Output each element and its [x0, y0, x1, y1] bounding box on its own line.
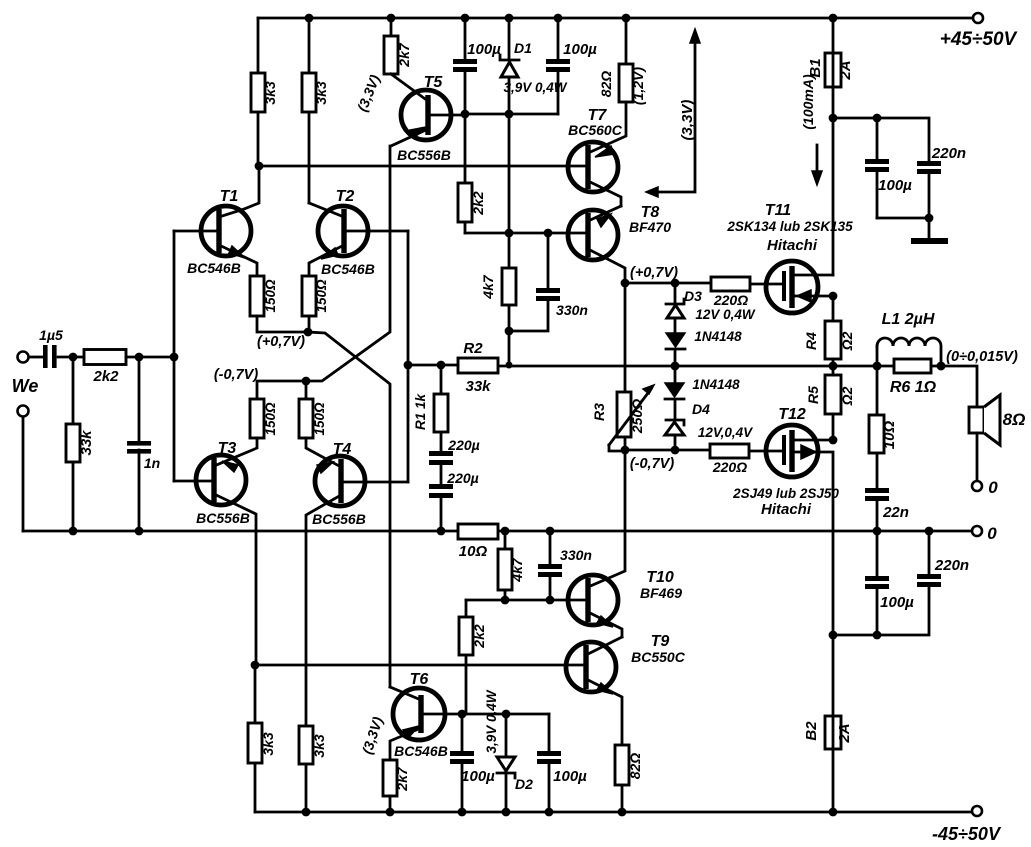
svg-text:T11: T11 [765, 202, 791, 219]
svg-text:(+0,7V): (+0,7V) [257, 334, 305, 350]
svg-text:R2: R2 [463, 340, 483, 357]
node +0.7V [621, 279, 630, 288]
svg-text:150Ω: 150Ω [312, 402, 327, 436]
resistor R1 1k [440, 365, 443, 451]
terminal +45V [973, 13, 983, 23]
svg-text:BC560C: BC560C [568, 122, 623, 138]
resistor 10R ground lift [458, 524, 498, 539]
capacitor 100u upper-right [557, 18, 560, 114]
svg-text:T12: T12 [778, 406, 806, 423]
node B1 bottom [829, 114, 838, 123]
node 1n bottom [135, 527, 144, 536]
node -0.7V [671, 446, 680, 455]
resistor 150R T3 emitter [250, 399, 264, 438]
resistor 2k2 input [84, 350, 126, 365]
svg-text:BC550C: BC550C [631, 649, 686, 665]
svg-text:(-0,7V): (-0,7V) [214, 367, 258, 383]
svg-text:T5: T5 [424, 74, 444, 91]
wire 2k2 to input node [126, 356, 174, 359]
svg-text:2k7: 2k7 [394, 766, 410, 792]
transistor T4 [315, 456, 365, 506]
capacitor 100u top right [876, 118, 879, 218]
wire speaker return [976, 433, 979, 480]
node T11 source [829, 292, 838, 301]
wire T8 base bus [465, 232, 588, 235]
resistor 2k7 upper [390, 18, 393, 36]
svg-text:BC556B: BC556B [312, 511, 366, 527]
resistor R2 33k [458, 358, 498, 373]
svg-text:33k: 33k [465, 378, 491, 395]
svg-text:1n: 1n [144, 455, 160, 471]
svg-text:3k3: 3k3 [313, 81, 329, 105]
wire T1 collector node rail [259, 165, 588, 168]
capacitor 100u lower-mid [548, 714, 551, 812]
svg-text:3,9V 0,4W: 3,9V 0,4W [484, 689, 499, 753]
terminal 0V right [972, 526, 982, 536]
resistor 2k2 upper [464, 114, 467, 233]
node 2k7 lower bottom rail [386, 808, 395, 817]
node T12 source [829, 436, 838, 445]
svg-text:R6 1Ω: R6 1Ω [890, 379, 937, 396]
node input after cap [69, 353, 78, 362]
svg-text:2k2: 2k2 [471, 624, 487, 649]
svg-text:33k: 33k [78, 430, 95, 456]
svg-text:100µ: 100µ [563, 41, 597, 58]
node T5 collector [461, 110, 470, 119]
diode 1N4148 upper [666, 333, 685, 347]
svg-text:BC556B: BC556B [397, 147, 451, 163]
diode D3 zener 12V [674, 283, 677, 333]
node 4k7/330n to output rail [505, 327, 514, 336]
node T12 drain lower wire [829, 631, 838, 640]
svg-text:2k2: 2k2 [470, 191, 486, 216]
capacitor 330n lower [549, 531, 552, 600]
svg-text:D2: D2 [515, 776, 533, 792]
svg-text:1N4148: 1N4148 [692, 377, 740, 392]
capacitor 220u feedback upper [429, 451, 453, 456]
wire -45V bottom supply rail [255, 811, 972, 814]
wire speaker feed [941, 366, 977, 407]
resistor 2k7 lower [383, 760, 397, 796]
svg-text:330n: 330n [556, 302, 588, 318]
svg-text:+45÷50V: +45÷50V [940, 29, 1018, 50]
svg-text:BC556B: BC556B [196, 510, 250, 526]
node D1 anode [505, 110, 514, 119]
potentiometer R3 250R [624, 283, 627, 392]
wire -0.7V line to T12 gate [625, 450, 784, 451]
capacitor 330n upper [509, 233, 548, 331]
svg-text:BF470: BF470 [629, 219, 671, 235]
node feedback [404, 361, 413, 370]
svg-text:T2: T2 [336, 188, 355, 205]
diode D4 zener 12V [666, 420, 684, 425]
resistor 4k7 lower [504, 531, 507, 600]
mosfet T12 2SJ49 [766, 425, 818, 477]
transistor T7 [568, 142, 618, 192]
svg-text:BC546B: BC546B [321, 261, 375, 277]
node 33k bottom [69, 527, 78, 536]
node T6 collector [458, 710, 467, 719]
svg-text:2k2: 2k2 [92, 368, 119, 385]
terminal -45V [972, 806, 982, 816]
wire T2/T4 base feedback column [407, 231, 410, 482]
svg-text:2A: 2A [836, 723, 853, 743]
transistor T2 [318, 206, 368, 256]
svg-text:150Ω: 150Ω [263, 279, 278, 313]
wire output rail middle [408, 365, 941, 366]
transistor T8 [568, 210, 618, 260]
resistor R6 1R [894, 359, 931, 373]
resistor 3k3 lower left [254, 665, 257, 812]
svg-text:100µ: 100µ [461, 768, 495, 785]
svg-text:L1 2µH: L1 2µH [882, 311, 935, 328]
svg-text:(-0,7V): (-0,7V) [630, 456, 674, 472]
resistor 150R T2 emitter [302, 276, 316, 316]
svg-text:12V 0,4W: 12V 0,4W [695, 307, 756, 322]
wire T1 collector [219, 166, 259, 217]
resistor 220R upper gate stopper [711, 277, 750, 291]
transistor T6 [393, 688, 445, 740]
svg-text:8Ω: 8Ω [1003, 410, 1026, 429]
svg-text:3k3: 3k3 [260, 732, 276, 756]
wire 2k7 to T5 base [391, 74, 428, 101]
svg-text:R5: R5 [805, 386, 821, 404]
node 1n junction [135, 353, 144, 362]
resistor R5 0R2 [825, 375, 841, 414]
wire node A bias bus [465, 113, 558, 116]
resistor 4k7 upper [508, 233, 511, 365]
transistor T5 [401, 90, 451, 140]
node L1 left on output rail [873, 362, 882, 371]
wire cross coupling from +0.7V to T6 column [308, 332, 390, 687]
svg-text:82Ω: 82Ω [598, 71, 614, 98]
terminal speaker 0 [972, 481, 982, 491]
svg-text:2k7: 2k7 [396, 42, 412, 68]
capacitor 220u feedback lower [440, 465, 443, 531]
wire caps common to chassis [877, 174, 929, 239]
svg-text:220Ω: 220Ω [712, 459, 747, 475]
wire T11 drain to fuse [832, 118, 835, 275]
svg-text:150Ω: 150Ω [263, 402, 278, 436]
svg-text:1N4148: 1N4148 [694, 329, 742, 344]
wire cross coupling from -0.7V to T5 emitter column [306, 146, 390, 381]
resistor 220R lower gate stopper [710, 444, 749, 458]
svg-text:T1: T1 [220, 188, 239, 205]
mosfet T11 2SK134 [766, 261, 818, 313]
node diode chain on output rail [671, 362, 680, 371]
svg-text:We: We [12, 376, 39, 396]
svg-text:220µ: 220µ [446, 470, 478, 486]
svg-text:220µ: 220µ [447, 437, 479, 453]
diode 1N4148 lower [674, 366, 677, 383]
svg-text:T6: T6 [410, 671, 429, 688]
svg-text:B2: B2 [803, 721, 820, 741]
resistor 82R upper [625, 18, 628, 64]
wire B1 to decoupling caps [833, 118, 929, 161]
resistor 150R T1 emitter [250, 276, 264, 316]
svg-text:0: 0 [988, 478, 998, 497]
svg-text:(1,2V): (1,2V) [630, 67, 646, 105]
svg-text:(+0,7V): (+0,7V) [630, 265, 678, 281]
fuse B2 2A [832, 635, 835, 812]
svg-text:R3: R3 [591, 403, 607, 421]
transistor T1 [201, 206, 251, 256]
svg-text:12V,0,4V: 12V,0,4V [698, 425, 753, 440]
node R4/R5 output [829, 362, 838, 371]
svg-text:150Ω: 150Ω [314, 279, 329, 313]
node diode chain top [671, 279, 680, 288]
resistor 10R zobel [876, 366, 879, 488]
speaker 8R [969, 407, 984, 433]
svg-text:10Ω: 10Ω [459, 543, 488, 560]
terminal We input ground [18, 406, 29, 417]
chassis bar [911, 238, 948, 244]
svg-text:100µ: 100µ [880, 594, 914, 611]
transistor T9 [566, 642, 616, 692]
transistor T3 [196, 455, 246, 505]
svg-text:100µ: 100µ [467, 41, 501, 58]
wire +45V top supply rail [258, 17, 973, 20]
svg-text:R4: R4 [803, 332, 819, 350]
node R1 top [437, 361, 446, 370]
capacitor 100u lower-left [461, 714, 464, 812]
wire T10 base bus [466, 599, 588, 602]
svg-text:(3,3V): (3,3V) [679, 100, 696, 141]
capacitor 100u upper-left [464, 18, 467, 114]
svg-text:100µ: 100µ [878, 177, 912, 194]
svg-text:D1: D1 [514, 40, 532, 56]
diode D2 zener 3.9V [505, 714, 508, 812]
node 2k7 top rail [387, 14, 396, 23]
svg-text:330n: 330n [560, 547, 592, 563]
capacitor 100u bottom right [876, 531, 879, 635]
wire lower cap common [833, 586, 929, 635]
svg-text:1µ5: 1µ5 [39, 327, 63, 343]
wire -0.7V node of T3/T4 emitters [257, 381, 306, 399]
wire lower bias bus [462, 713, 549, 716]
svg-text:100µ: 100µ [553, 768, 587, 785]
resistor 33k input [72, 357, 75, 531]
svg-text:BF469: BF469 [640, 585, 682, 601]
svg-text:(100mA): (100mA) [800, 74, 816, 130]
svg-text:Hitachi: Hitachi [767, 237, 818, 254]
annotation 3.3V arrow [657, 40, 695, 192]
resistor R4 0R2 [832, 296, 835, 321]
inductor L1 2uH [876, 346, 879, 366]
wire C1u5 to node [58, 356, 84, 359]
svg-text:T10: T10 [646, 569, 674, 586]
svg-text:220n: 220n [931, 145, 966, 162]
wire T9 base rail lower [255, 664, 586, 667]
resistor 3k3 lower second [305, 726, 308, 812]
resistor 2k2 lower [465, 600, 468, 714]
svg-text:22n: 22n [882, 504, 909, 521]
svg-text:220Ω: 220Ω [713, 292, 748, 308]
svg-text:T3: T3 [218, 440, 237, 457]
svg-text:220n: 220n [934, 557, 969, 574]
wire input ground down to 0V rail [22, 417, 25, 531]
svg-text:BC546B: BC546B [394, 743, 448, 759]
wire T1/T3 base column [173, 231, 176, 481]
svg-text:250Ω: 250Ω [629, 399, 645, 434]
wire +0.7V node of T1/T2 emitters [257, 316, 309, 332]
wire ground 0V rail [23, 530, 972, 533]
diode D1 zener 3.9V [508, 18, 511, 233]
capacitor 220n top right [917, 161, 941, 166]
capacitor 22n zobel [865, 488, 889, 493]
resistor 3k3 upper left [257, 18, 260, 166]
svg-text:-45÷50V: -45÷50V [932, 824, 1002, 844]
svg-text:82Ω: 82Ω [627, 753, 643, 780]
terminal We input hot [18, 352, 29, 363]
capacitor 1u5 [43, 345, 48, 368]
svg-text:Ω2: Ω2 [839, 331, 855, 351]
svg-text:R1 1k: R1 1k [413, 392, 428, 430]
node 3k3-2 top rail [305, 14, 314, 23]
svg-text:4k7: 4k7 [480, 274, 496, 300]
svg-text:4k7: 4k7 [509, 557, 525, 583]
node output to speaker [937, 362, 946, 371]
svg-text:10Ω: 10Ω [881, 421, 898, 450]
transistor T10 [568, 575, 618, 625]
svg-text:3k3: 3k3 [311, 734, 327, 758]
capacitor 220n bottom right [928, 531, 931, 574]
svg-text:BC546B: BC546B [187, 260, 241, 276]
svg-text:2SJ49 lub 2SJ50: 2SJ49 lub 2SJ50 [732, 486, 839, 501]
svg-text:2A: 2A [837, 60, 854, 80]
svg-text:T4: T4 [333, 441, 352, 458]
svg-text:(0÷0,015V): (0÷0,015V) [946, 349, 1018, 365]
svg-text:Ω2: Ω2 [839, 386, 855, 406]
resistor 150R T4 emitter [299, 399, 313, 438]
wire input terminal to C 1u5 [29, 356, 42, 359]
resistor 82R lower [615, 745, 629, 785]
svg-text:T9: T9 [651, 633, 670, 650]
capacitor 1n [138, 357, 141, 531]
resistor 3k3 upper second [308, 18, 311, 203]
svg-text:D4: D4 [692, 401, 710, 417]
node feedback cap bottom on 0V rail [437, 527, 446, 536]
wire +0.7V line to T11 gate [625, 283, 784, 284]
svg-text:0: 0 [987, 524, 997, 543]
node base T1/T3 [170, 353, 179, 362]
svg-text:D3: D3 [684, 288, 702, 304]
svg-text:Hitachi: Hitachi [761, 501, 812, 518]
svg-text:3k3: 3k3 [262, 81, 278, 105]
fuse B1 2A [832, 18, 835, 118]
